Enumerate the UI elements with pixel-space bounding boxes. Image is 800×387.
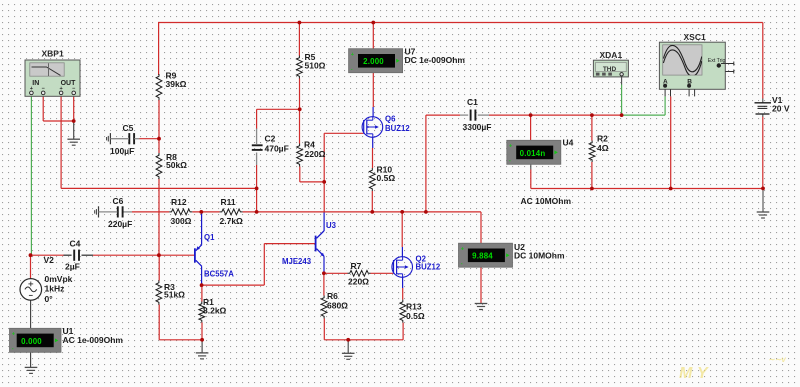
svg-text:0°: 0° <box>45 294 54 304</box>
svg-text:510Ω: 510Ω <box>305 60 326 70</box>
svg-text:C4: C4 <box>70 238 81 248</box>
svg-text:220Ω: 220Ω <box>305 149 326 159</box>
svg-text:9.884: 9.884 <box>472 252 493 261</box>
svg-text:R13: R13 <box>406 301 422 311</box>
svg-text:+: + <box>12 332 15 338</box>
svg-text:220Ω: 220Ω <box>348 276 369 286</box>
svg-text:-: - <box>351 67 353 73</box>
svg-text:+: + <box>461 246 464 252</box>
svg-text:AC 1e-009Ohm: AC 1e-009Ohm <box>63 335 124 345</box>
svg-text:300Ω: 300Ω <box>171 216 192 226</box>
svg-text:R12: R12 <box>171 197 187 207</box>
svg-text:-: - <box>12 346 14 352</box>
svg-text:R2: R2 <box>597 133 608 143</box>
svg-text:39kΩ: 39kΩ <box>166 79 187 89</box>
svg-text:V2: V2 <box>44 255 55 265</box>
svg-text:680Ω: 680Ω <box>327 300 348 310</box>
svg-text:-: - <box>509 158 511 164</box>
svg-text:IN: IN <box>32 80 39 87</box>
svg-text:XDA1: XDA1 <box>600 50 623 60</box>
svg-text:C5: C5 <box>123 123 134 133</box>
svg-text:8.2kΩ: 8.2kΩ <box>203 305 227 315</box>
svg-text:U3: U3 <box>326 221 337 230</box>
svg-text:U4: U4 <box>563 137 574 147</box>
svg-text:C2: C2 <box>265 133 276 143</box>
svg-text:0.5Ω: 0.5Ω <box>406 311 425 321</box>
svg-text:3300µF: 3300µF <box>463 122 492 132</box>
svg-text:-: - <box>461 261 463 267</box>
svg-text:+: + <box>351 52 354 58</box>
svg-text:DC 10MOhm: DC 10MOhm <box>514 250 565 260</box>
svg-text:2.000: 2.000 <box>363 57 384 66</box>
svg-text:20 V: 20 V <box>772 103 790 113</box>
svg-text:100µF: 100µF <box>110 146 134 156</box>
svg-text:4Ω: 4Ω <box>597 143 609 153</box>
svg-text:XSC1: XSC1 <box>684 32 706 42</box>
svg-text:2µF: 2µF <box>65 261 80 271</box>
svg-text:+: + <box>509 144 512 150</box>
svg-text:220µF: 220µF <box>108 219 132 229</box>
svg-text:BC557A: BC557A <box>204 269 234 278</box>
svg-text:M: M <box>679 365 693 382</box>
svg-text:Y: Y <box>697 365 709 382</box>
svg-text:XBP1: XBP1 <box>42 48 64 58</box>
svg-text:470µF: 470µF <box>265 143 289 153</box>
svg-text:R4: R4 <box>304 139 315 149</box>
svg-text:0.014n: 0.014n <box>520 149 546 158</box>
svg-text:BUZ12: BUZ12 <box>385 124 410 133</box>
svg-text:1kHz: 1kHz <box>45 283 65 293</box>
svg-text:Q6: Q6 <box>385 114 396 123</box>
svg-text:51kΩ: 51kΩ <box>164 289 185 299</box>
svg-text:BUZ12: BUZ12 <box>416 262 441 271</box>
svg-text:THD: THD <box>603 66 617 73</box>
svg-text:R11: R11 <box>221 197 236 207</box>
svg-text:DC 1e-009Ohm: DC 1e-009Ohm <box>405 55 466 65</box>
svg-text:AC 10MOhm: AC 10MOhm <box>521 196 572 206</box>
svg-text:0mVpk: 0mVpk <box>45 274 73 284</box>
svg-text:R7: R7 <box>351 261 362 271</box>
svg-text:50kΩ: 50kΩ <box>166 160 187 170</box>
svg-text:Q1: Q1 <box>204 233 215 242</box>
svg-text:∼∼v: ∼∼v <box>768 355 786 364</box>
svg-text:C6: C6 <box>113 196 124 206</box>
svg-text:R6: R6 <box>327 291 338 301</box>
svg-text:C1: C1 <box>467 97 478 107</box>
svg-text:0.000: 0.000 <box>21 337 42 346</box>
svg-text:MJE243: MJE243 <box>282 257 312 266</box>
svg-text:0.5Ω: 0.5Ω <box>377 173 396 183</box>
svg-text:2.7kΩ: 2.7kΩ <box>220 216 244 226</box>
